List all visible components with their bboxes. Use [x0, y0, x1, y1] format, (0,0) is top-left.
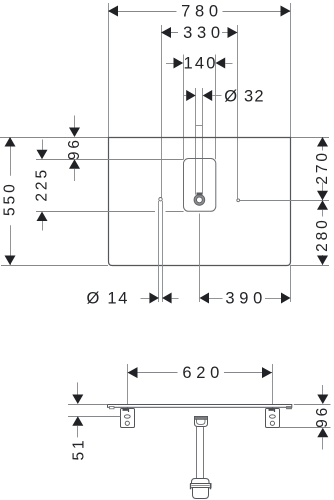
dim 96 left arrow top — [69, 128, 80, 138]
dim 620 extension left — [127, 364, 129, 409]
dim d32 arrow right — [203, 90, 213, 101]
platform top edge extension — [36, 159, 184, 161]
dim d14 arrow left — [149, 293, 159, 304]
dim 140 tail right — [225, 63, 232, 65]
extension line 330 right — [237, 25, 239, 199]
left bracket slot — [124, 415, 130, 418]
slab right under block — [287, 407, 292, 409]
fixing point circle right — [237, 199, 240, 202]
dim 96 right tail bottom — [322, 437, 324, 449]
dim 280 line — [322, 210, 324, 217]
extension line 140 right — [215, 55, 217, 160]
bracket bottom extension right — [279, 427, 330, 429]
svg-text:330: 330 — [183, 24, 225, 42]
extension line d32 right — [202, 88, 204, 195]
drain fitting hatched bar — [195, 417, 208, 420]
svg-text:270: 270 — [314, 150, 331, 185]
dim 620 line — [128, 372, 178, 374]
dim 140 arrow left — [174, 58, 184, 69]
svg-text:Ø 32: Ø 32 — [224, 87, 265, 105]
dim 330 arrow right — [228, 27, 238, 38]
slab top extension right — [294, 404, 331, 406]
dim 780 line — [108, 11, 177, 13]
svg-text:96: 96 — [314, 405, 331, 428]
dim 270 arrow bottom — [317, 191, 328, 201]
extension line d32 left — [195, 88, 197, 195]
dim 330 line — [161, 32, 178, 34]
svg-text:96: 96 — [66, 137, 83, 160]
dim 96 left tail bottom — [74, 169, 76, 181]
tap platform rounded rect — [184, 159, 216, 212]
d14 hole circle — [159, 198, 162, 201]
bracket slot extension left — [68, 416, 120, 418]
svg-text:51: 51 — [71, 437, 88, 460]
dim 390 arrow right — [281, 293, 291, 304]
extension line 140 left — [183, 55, 185, 160]
dim 96 left tail top — [74, 116, 76, 128]
slab top extension left — [68, 404, 108, 406]
dim 225 arrow bottom — [37, 212, 48, 222]
right bracket slot — [270, 415, 276, 418]
dim 51 tail top — [77, 382, 79, 394]
dim 51 arrow top — [72, 395, 83, 405]
fixing point reference line — [240, 200, 329, 202]
dim 96 right arrow top — [317, 395, 328, 405]
svg-text:140: 140 — [184, 55, 218, 73]
basin bottom edge extension left — [1, 265, 108, 267]
dim d32 tail left — [184, 95, 186, 97]
d14 hole slot line right — [162, 201, 164, 302]
dim 270 arrow top — [317, 137, 328, 147]
faucet hole tick — [196, 125, 203, 127]
drain fitting inner U — [197, 419, 206, 424]
right bracket hole — [270, 421, 274, 425]
dim 280 arrow top — [317, 200, 328, 210]
left bracket anchor mark — [123, 409, 128, 411]
dim 780 arrow left — [108, 6, 118, 17]
trap flange inner line — [192, 485, 210, 487]
dim 225 tail top — [42, 140, 44, 150]
platform bottom edge extension — [36, 211, 155, 213]
dim 620 arrow left — [128, 367, 138, 378]
tap hole cap — [197, 193, 203, 196]
right edge extension to 390 — [290, 265, 292, 302]
svg-text:390: 390 — [225, 290, 267, 308]
dim 96 right arrow bottom — [317, 428, 328, 438]
extension line 780 left — [108, 3, 110, 137]
dim 550 line bottom — [10, 225, 12, 265]
dim 140 tail left — [166, 63, 174, 65]
svg-text:780: 780 — [181, 3, 223, 21]
svg-text:225: 225 — [33, 167, 50, 202]
dim 550 line top — [10, 137, 12, 176]
dim 390 arrow left — [200, 293, 210, 304]
console slab (front view) — [108, 405, 292, 408]
dim 550 arrow top — [5, 137, 16, 147]
dim 225 arrow top — [37, 150, 48, 160]
dim 620 extension right — [272, 364, 274, 409]
basin outline (plan view) — [109, 138, 291, 266]
centre extension line — [199, 214, 201, 303]
dim 620 arrow right — [262, 367, 272, 378]
right bracket — [266, 409, 280, 428]
basin bottom edge extension right — [291, 265, 330, 267]
dim 51 arrow bottom — [72, 416, 83, 426]
svg-text:Ø 14: Ø 14 — [87, 290, 130, 308]
basin top edge extension left — [0, 137, 108, 139]
dim d14 arrow right — [162, 293, 172, 304]
drain fitting outer — [195, 417, 208, 427]
extension line 330 left — [161, 25, 163, 198]
dim 550 arrow bottom — [5, 256, 16, 266]
trap flange tab left — [190, 484, 192, 490]
slab left under block — [110, 407, 115, 409]
dim d14 tail right — [172, 298, 179, 300]
dim d14 tail left — [141, 298, 150, 300]
drain pipe right line — [203, 427, 205, 480]
trap flange tab right — [210, 484, 212, 490]
dim 330 arrow left — [161, 27, 171, 38]
dim 390 line — [209, 298, 223, 300]
dim d32 tail right — [212, 95, 221, 97]
trap flange — [191, 484, 212, 488]
basin top edge extension right — [291, 137, 330, 139]
svg-text:620: 620 — [182, 364, 224, 382]
trap cup — [193, 488, 209, 499]
extension line 780 right — [290, 3, 292, 137]
dim 51 tail bottom — [77, 426, 79, 438]
dim 225 tail bottom — [42, 221, 44, 231]
svg-text:280: 280 — [314, 217, 331, 252]
right bracket anchor mark — [269, 409, 274, 411]
dim 96 left arrow bottom — [69, 159, 80, 169]
d14 hole slot line left — [158, 201, 160, 302]
dim 96 right tail top — [322, 385, 324, 395]
svg-text:550: 550 — [1, 181, 18, 216]
left bracket hole — [125, 421, 129, 425]
trap collar — [192, 479, 210, 484]
tap hole ring — [195, 196, 203, 204]
dim 140 arrow right — [216, 58, 226, 69]
dim 270 line — [322, 137, 324, 151]
dim 280 arrow bottom — [317, 256, 328, 266]
dim d32 arrow left — [186, 90, 196, 101]
left bracket — [121, 409, 135, 428]
dim 780 arrow right — [281, 6, 291, 17]
drain pipe left line — [196, 427, 198, 480]
